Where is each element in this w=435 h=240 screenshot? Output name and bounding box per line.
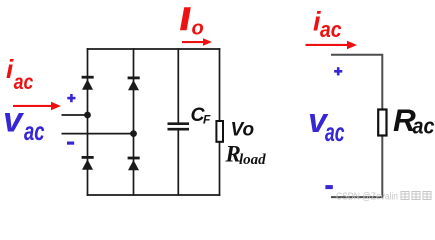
wire: left circuit bottom bus [87, 194, 221, 196]
svg-text:F: F [203, 113, 211, 127]
diode D1 upper-left [82, 77, 94, 90]
diode D3 upper-middle [128, 78, 140, 90]
node: plus input junction [84, 112, 91, 119]
label CF (filter capacitor) [191, 104, 212, 127]
wire: load leg lower [219, 142, 221, 196]
label Rload [225, 142, 267, 169]
svg-text:ac: ac [24, 116, 45, 146]
arrow: Io direction [182, 38, 212, 45]
wire: filter capacitor leg upper [177, 48, 179, 123]
watermark [336, 192, 431, 203]
svg-text:load: load [239, 152, 266, 168]
node: minus input junction [130, 130, 137, 137]
arrow: iac current direction (left) [13, 102, 61, 110]
resistor Rac body [378, 110, 386, 136]
svg-text:o: o [192, 18, 204, 40]
wire: load leg upper [219, 48, 221, 121]
svg-text:ac: ac [320, 17, 342, 42]
resistor Rload body [216, 121, 223, 142]
svg-text:v: v [3, 100, 25, 139]
svg-text:CSDN @Zevalin: CSDN @Zevalin [336, 192, 398, 203]
svg-text:ac: ac [325, 117, 345, 147]
label plus (left) [67, 94, 75, 102]
wire: filter capacitor leg lower [177, 130, 179, 196]
svg-text:ac: ac [413, 114, 435, 139]
wire: ac input minus lead [62, 133, 134, 135]
wire: left circuit top bus [87, 48, 221, 50]
arrow: iac current direction (right) [306, 41, 358, 49]
label iac (left source current) [6, 54, 33, 94]
svg-text:i: i [6, 54, 14, 84]
svg-text:Vo: Vo [231, 119, 255, 140]
label iac (right equivalent circuit) [313, 6, 342, 42]
wire: right circuit bottom lead [331, 136, 382, 198]
label Io (output current) [180, 7, 204, 40]
label Rac (equivalent resistance) [393, 102, 435, 139]
label plus (right) [334, 67, 342, 75]
capacitor CF plates [168, 124, 190, 130]
diode D2 lower-left [82, 157, 94, 169]
wire: ac input plus lead [62, 114, 88, 116]
label minus (left) [67, 142, 74, 145]
wire: bridge left leg [87, 48, 89, 196]
diode D4 lower-middle [128, 158, 140, 170]
wire: bridge middle leg [133, 48, 135, 196]
svg-text:ac: ac [14, 70, 34, 94]
wire: right circuit top lead [331, 55, 382, 110]
label minus (right) [325, 185, 332, 189]
label vac (right source voltage) [308, 102, 345, 147]
label vac (left source voltage) [3, 100, 45, 146]
